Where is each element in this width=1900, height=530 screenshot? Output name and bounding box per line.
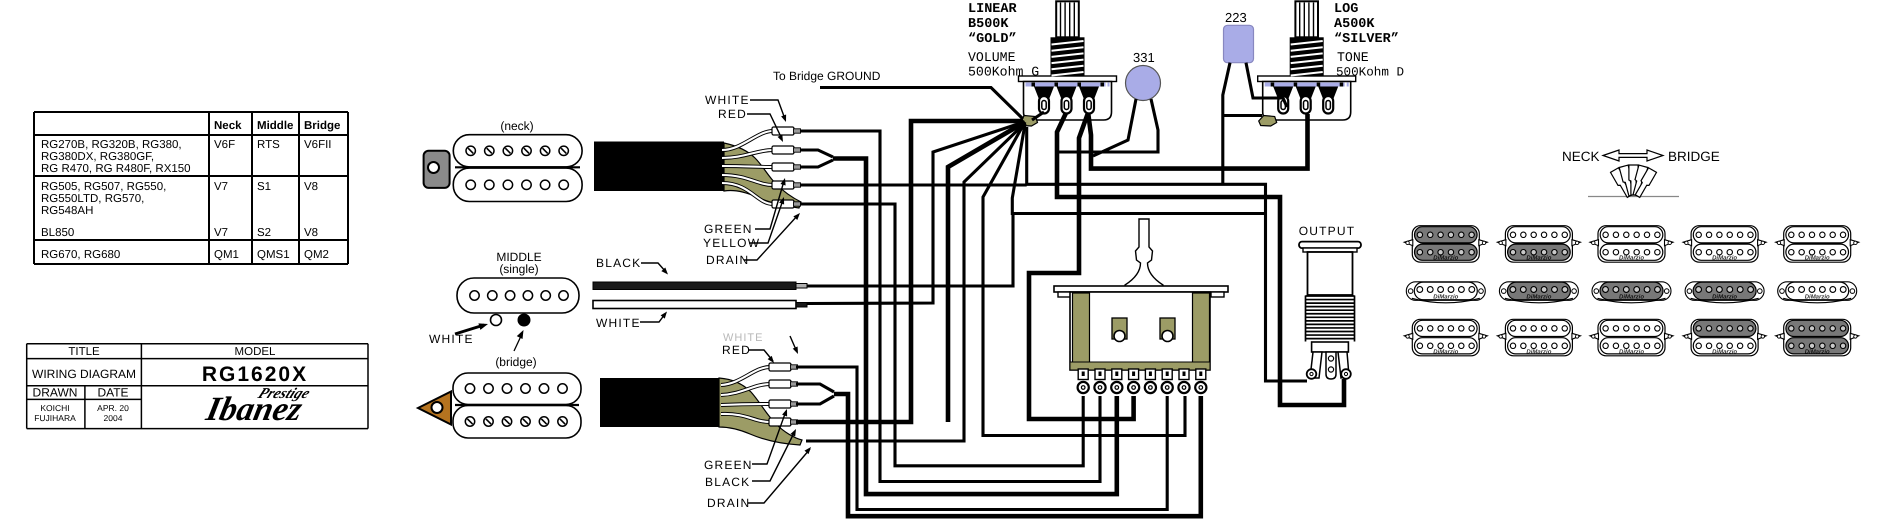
svg-text:WHITE: WHITE (596, 316, 641, 330)
svg-text:DiMarzio: DiMarzio (1526, 255, 1551, 262)
svg-text:Neck: Neck (214, 120, 242, 132)
svg-text:OUTPUT: OUTPUT (1299, 224, 1356, 238)
svg-text:BLACK: BLACK (705, 475, 750, 489)
svg-text:DiMarzio: DiMarzio (1712, 255, 1737, 262)
svg-text:V7: V7 (214, 181, 228, 193)
svg-text:“SILVER”: “SILVER” (1334, 32, 1399, 47)
svg-text:DiMarzio: DiMarzio (1805, 348, 1830, 355)
svg-text:RG670, RG680: RG670, RG680 (41, 249, 120, 261)
svg-text:DiMarzio: DiMarzio (1619, 294, 1644, 301)
svg-text:331: 331 (1133, 50, 1155, 65)
svg-text:To Bridge GROUND: To Bridge GROUND (773, 69, 881, 83)
svg-text:2004: 2004 (104, 413, 123, 423)
svg-text:(single): (single) (499, 262, 538, 276)
svg-text:RG380DX, RG380GF,: RG380DX, RG380GF, (41, 151, 154, 163)
svg-text:RG R470, RG R480F, RX150: RG R470, RG R480F, RX150 (41, 163, 191, 175)
svg-text:VOLUME: VOLUME (968, 50, 1016, 65)
svg-text:RTS: RTS (257, 139, 280, 151)
svg-text:S1: S1 (257, 181, 271, 193)
svg-text:LOG: LOG (1334, 2, 1358, 17)
svg-text:KOICHI: KOICHI (40, 403, 69, 413)
svg-text:WHITE: WHITE (429, 332, 474, 346)
svg-text:V6F: V6F (214, 139, 235, 151)
svg-text:Middle: Middle (257, 120, 293, 132)
svg-text:V8: V8 (304, 181, 318, 193)
svg-text:TITLE: TITLE (68, 346, 100, 358)
svg-text:QMS1: QMS1 (257, 249, 290, 261)
svg-text:V8: V8 (304, 227, 318, 239)
svg-text:“GOLD”: “GOLD” (968, 32, 1017, 47)
svg-text:DiMarzio: DiMarzio (1805, 294, 1830, 301)
svg-text:NECK: NECK (1562, 149, 1600, 164)
svg-text:RG548AH: RG548AH (41, 205, 93, 217)
svg-text:WHITE: WHITE (705, 93, 750, 107)
svg-text:DiMarzio: DiMarzio (1433, 294, 1458, 301)
svg-text:DiMarzio: DiMarzio (1712, 294, 1737, 301)
svg-text:DiMarzio: DiMarzio (1619, 255, 1644, 262)
svg-text:RG550LTD, RG570,: RG550LTD, RG570, (41, 193, 144, 205)
svg-text:500Kohm G: 500Kohm G (968, 65, 1039, 80)
svg-text:BL850: BL850 (41, 227, 74, 239)
svg-text:RG505, RG507, RG550,: RG505, RG507, RG550, (41, 181, 166, 193)
svg-text:DiMarzio: DiMarzio (1433, 348, 1458, 355)
svg-text:WIRING DIAGRAM: WIRING DIAGRAM (32, 367, 136, 381)
svg-text:Prestige: Prestige (255, 386, 313, 402)
svg-text:GREEN: GREEN (704, 222, 753, 236)
svg-text:BRIDGE: BRIDGE (1668, 149, 1720, 164)
svg-text:MODEL: MODEL (235, 346, 277, 358)
svg-text:223: 223 (1225, 10, 1247, 25)
svg-text:DRAIN: DRAIN (706, 253, 749, 267)
svg-text:A500K: A500K (1334, 17, 1375, 32)
svg-text:DATE: DATE (97, 386, 128, 400)
svg-text:DRAWN: DRAWN (33, 386, 78, 400)
svg-text:FUJIHARA: FUJIHARA (34, 413, 76, 423)
svg-text:S2: S2 (257, 227, 271, 239)
svg-text:TONE: TONE (1337, 50, 1369, 65)
svg-text:DiMarzio: DiMarzio (1526, 348, 1551, 355)
svg-text:DiMarzio: DiMarzio (1619, 348, 1644, 355)
svg-text:RED: RED (718, 107, 747, 121)
svg-text:APR. 20: APR. 20 (97, 403, 129, 413)
svg-text:(bridge): (bridge) (495, 355, 536, 369)
svg-text:DiMarzio: DiMarzio (1712, 348, 1737, 355)
svg-text:LINEAR: LINEAR (968, 2, 1018, 17)
svg-text:DRAIN: DRAIN (707, 496, 750, 510)
svg-text:DiMarzio: DiMarzio (1433, 255, 1458, 262)
svg-text:500Kohm D: 500Kohm D (1336, 66, 1404, 80)
svg-text:GREEN: GREEN (704, 458, 753, 472)
svg-text:RG1620X: RG1620X (202, 363, 308, 386)
svg-text:DiMarzio: DiMarzio (1526, 294, 1551, 301)
svg-text:B500K: B500K (968, 17, 1009, 32)
svg-text:Bridge: Bridge (304, 120, 340, 132)
svg-text:DiMarzio: DiMarzio (1805, 255, 1830, 262)
svg-text:RED: RED (722, 343, 751, 357)
svg-text:QM2: QM2 (304, 249, 329, 261)
svg-text:BLACK: BLACK (596, 256, 641, 270)
svg-text:RG270B, RG320B, RG380,: RG270B, RG320B, RG380, (41, 139, 182, 151)
svg-text:QM1: QM1 (214, 249, 239, 261)
svg-text:V7: V7 (214, 227, 228, 239)
svg-text:(neck): (neck) (500, 119, 533, 133)
svg-text:V6FII: V6FII (304, 139, 331, 151)
